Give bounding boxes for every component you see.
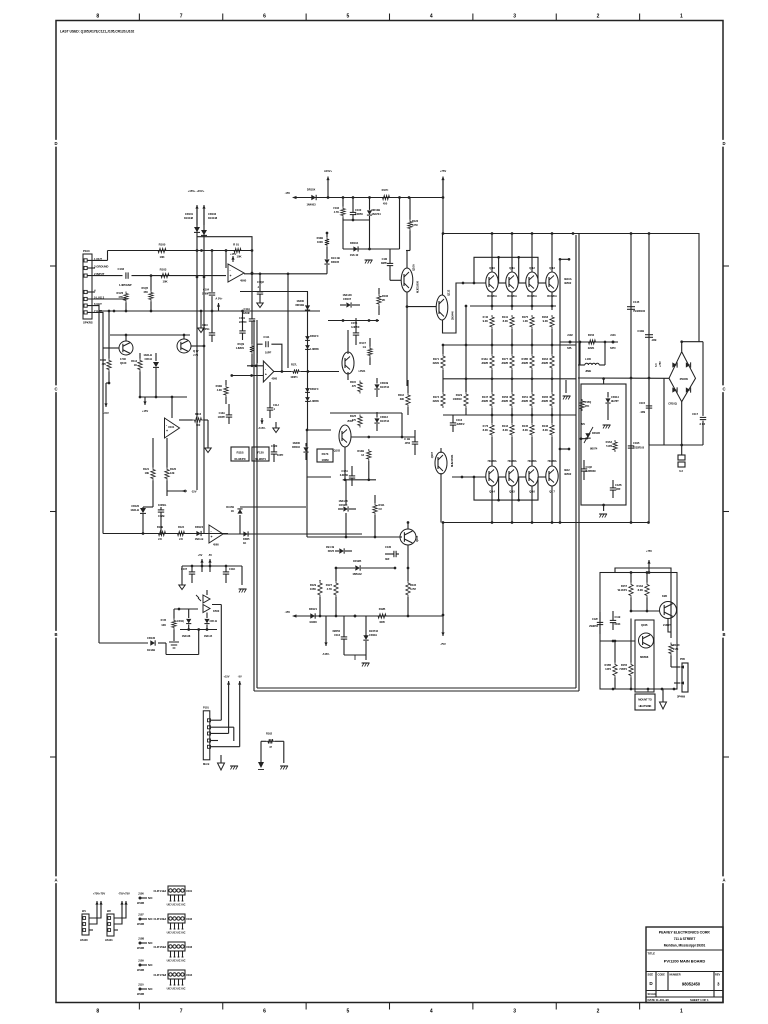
connector HS1 W1 <box>82 914 89 935</box>
svg-text:CLIP #5&6: CLIP #5&6 <box>154 945 167 949</box>
svg-text:P5B: P5B <box>680 657 685 661</box>
resistor R177 .33M5 <box>510 354 514 370</box>
wire P100 pin5 to R1V6 <box>88 298 127 300</box>
svg-text:1N4 4B: 1N4 4B <box>331 256 340 260</box>
P100 pin 1 OUT <box>84 259 87 262</box>
svg-text:Q 12: Q 12 <box>529 266 535 270</box>
svg-text:P100: P100 <box>83 249 90 253</box>
ground P101 triangle <box>220 755 222 763</box>
svg-text:Q 13: Q 13 <box>549 266 555 270</box>
svg-text:W10B: W10B <box>137 968 144 972</box>
svg-text:1N41-B: 1N41-B <box>204 635 213 638</box>
connector HS2 W2 <box>107 914 114 936</box>
plug J102 SPL <box>569 341 572 344</box>
svg-text:MV: MV <box>581 422 585 426</box>
diode CR115 <box>186 619 191 623</box>
svg-text:1: 1 <box>680 14 683 20</box>
wire top feedback bus y=250 <box>108 250 253 252</box>
svg-text:C: C <box>55 386 58 391</box>
resistor R15B <box>613 663 617 678</box>
svg-text:SPKRS: SPKRS <box>83 321 93 325</box>
svg-text:CR10Q: CR10Q <box>668 402 677 406</box>
resistor R123 <box>408 220 412 231</box>
svg-text:1: 1 <box>680 1009 683 1015</box>
svg-text:HS101: HS101 <box>105 938 113 942</box>
resistor R100 <box>156 248 168 252</box>
svg-text:J101: J101 <box>610 333 616 337</box>
resistor R128 <box>376 614 388 618</box>
svg-text:2S9R50: 2S9R50 <box>589 624 598 628</box>
svg-text:R125: R125 <box>350 414 357 418</box>
svg-text:1K: 1K <box>231 509 234 513</box>
diode CR121 <box>310 613 315 618</box>
svg-text:DR25: DR25 <box>243 537 250 541</box>
svg-text:.R50: .R50 <box>405 441 411 445</box>
svg-text:N/C: N/C <box>148 987 153 991</box>
svg-text:J106: J106 <box>138 892 144 896</box>
svg-text:C116: C116 <box>456 418 463 422</box>
svg-text:C10B: C10B <box>637 329 644 333</box>
resistor R1V6 47E <box>124 292 128 303</box>
capacitor C130 <box>393 551 395 557</box>
svg-text:1N4148: 1N4148 <box>338 499 348 503</box>
svg-text:R12B: R12B <box>379 607 386 611</box>
wire P100 pin7 <box>88 312 104 533</box>
resistor R101 <box>232 248 243 252</box>
diode CR111 <box>153 362 159 367</box>
svg-text:2.3R50M: 2.3R50M <box>586 469 596 473</box>
capacitor C117 <box>700 416 706 418</box>
svg-text:R16D: R16D <box>673 643 680 647</box>
svg-text:3.3R50: 3.3R50 <box>340 473 349 477</box>
wire CR130 row <box>99 642 148 644</box>
wire diff pair collectors <box>110 334 190 336</box>
transistor Q117 <box>546 466 558 486</box>
resistor R157 <box>629 583 633 598</box>
svg-text:2: 2 <box>597 14 600 20</box>
resistor R105 <box>149 291 153 302</box>
connector P100 <box>83 254 92 319</box>
wire y=220 joiner <box>343 219 370 221</box>
svg-text:22R50: 22R50 <box>239 320 247 324</box>
svg-text:2200F: 2200F <box>243 311 251 315</box>
svg-text:C120: C120 <box>271 444 278 448</box>
wire collector bus y=320 <box>328 320 379 322</box>
svg-text:6: 6 <box>263 1009 266 1015</box>
svg-text:.22RF2: .22RF2 <box>456 422 465 426</box>
svg-text:2.2K: 2.2K <box>673 647 678 651</box>
svg-text:21D8T: 21D8T <box>663 623 671 627</box>
wire upper base row <box>473 282 476 285</box>
svg-text:S 0: S 0 <box>654 363 658 367</box>
svg-text:R1Q5: R1Q5 <box>141 286 148 290</box>
ground R162 right <box>281 766 283 770</box>
wire ladder left rail <box>465 306 467 392</box>
svg-text:CR101: CR101 <box>185 212 194 216</box>
svg-text:F102: F102 <box>333 206 339 210</box>
svg-text:U102: U102 <box>186 917 193 921</box>
+15V arrow above U100A <box>232 256 234 262</box>
svg-text:640K: 640K <box>615 622 621 626</box>
P100 pin 6 GET <box>84 304 87 307</box>
wire P100 pin3 <box>88 267 96 269</box>
protection outer wire box <box>600 573 677 690</box>
svg-text:CR130: CR130 <box>147 636 156 640</box>
wire +75V arrow top <box>442 177 444 198</box>
svg-text:R11B: R11B <box>237 450 244 454</box>
svg-text:R123: R123 <box>412 219 419 223</box>
svg-text:1N4148: 1N4148 <box>182 635 191 638</box>
svg-text:CLIP #1&2: CLIP #1&2 <box>154 889 167 893</box>
capacitor C11B mid <box>412 441 418 443</box>
svg-text:100R1C: 100R1C <box>453 397 462 401</box>
wire bias rail x=560 <box>559 259 561 522</box>
arrow -15V bus left <box>292 614 297 617</box>
svg-text:+75V+75V: +75V+75V <box>93 892 105 896</box>
svg-text:6R9W8: 6R9W8 <box>640 655 649 659</box>
diode DR104 <box>353 246 357 251</box>
wire emitter bus y=397 <box>140 396 187 398</box>
svg-text:3: 3 <box>513 14 516 20</box>
resistor R155 <box>629 663 633 678</box>
svg-text:Q100: Q100 <box>120 361 127 365</box>
capacitor C12B <box>158 509 164 511</box>
svg-text:2K: 2K <box>382 298 385 302</box>
resistor R116 <box>193 418 204 422</box>
svg-text:W10B: W10B <box>137 946 144 950</box>
svg-text:1N14B: 1N14B <box>147 648 155 652</box>
plug J101 SPO <box>612 341 615 344</box>
svg-text:SIZE: SIZE <box>648 973 654 977</box>
resistor R141 9.2K <box>510 315 514 329</box>
capacitor C105 <box>239 330 245 332</box>
svg-text:Q 07: Q 07 <box>193 349 199 353</box>
svg-text:CR107: CR107 <box>343 297 352 301</box>
svg-text:1.3RRK: 1.3RRK <box>310 399 319 403</box>
resistor R160 8.2K <box>645 583 649 598</box>
svg-text:C130: C130 <box>385 545 392 549</box>
svg-text:7310BA: 7310BA <box>507 459 516 463</box>
shield box right edge <box>578 233 580 691</box>
svg-text:Q105: Q105 <box>415 535 419 542</box>
arrow -15V mid <box>167 490 187 492</box>
svg-text:+15V: +15V <box>230 252 236 256</box>
resistor R124 2.2K <box>176 531 187 535</box>
svg-text:8.2K: 8.2K <box>503 428 508 432</box>
svg-text:DR10B: DR10B <box>295 303 304 307</box>
svg-text:4: 4 <box>430 14 433 20</box>
svg-text:C111: C111 <box>263 335 269 339</box>
P100 pin 2 INPUT <box>84 274 87 277</box>
resistor R10B 4.3K <box>224 385 228 397</box>
svg-text:C: C <box>723 386 726 391</box>
resistor R161 2.2K <box>669 643 673 656</box>
svg-text:.1BF: .1BF <box>615 487 621 491</box>
wire Q104 emitter chain <box>344 447 346 480</box>
svg-text:R163: R163 <box>542 315 549 319</box>
svg-text:Q103: Q103 <box>334 449 341 453</box>
wire U102 inputs <box>247 365 263 367</box>
arrow A15V- mid <box>261 418 263 424</box>
wire -75V drop <box>442 523 444 631</box>
resistor R 76 8.2K <box>490 423 494 437</box>
svg-text:7: 7 <box>180 14 183 20</box>
svg-text:49502: 49502 <box>564 281 572 285</box>
svg-text:N/C: N/C <box>148 941 153 945</box>
svg-text:1BB142: 1BB142 <box>352 572 362 576</box>
capacitor C101 <box>387 262 393 264</box>
resistor R15B .33M5 <box>530 354 534 370</box>
wire U101B output <box>223 533 362 535</box>
svg-text:1N4148: 1N4148 <box>342 293 352 297</box>
ground /77 VI box bottom <box>602 504 605 507</box>
svg-text:R10B: R10B <box>216 384 223 388</box>
wire Q106 base <box>390 279 401 281</box>
svg-text:C12B: C12B <box>615 483 622 487</box>
diode CR12H <box>343 506 347 511</box>
ground P101 slashed <box>231 766 233 770</box>
svg-text:10060L: 10060L <box>158 503 167 507</box>
transistor Q120 <box>660 602 677 619</box>
diode CR103 <box>203 209 205 534</box>
wire P101 pin1 riser <box>220 648 222 720</box>
transistor Q114 <box>486 466 498 486</box>
title block <box>646 927 723 1003</box>
capacitor C107 <box>189 571 195 573</box>
diode CR101 <box>196 209 198 490</box>
wire bias rail <box>182 565 242 567</box>
transistor Q108 predriver <box>436 295 448 320</box>
resistor R151 .33M5 <box>530 392 534 408</box>
wire bias to CR130 <box>198 630 200 655</box>
svg-text:CR120: CR120 <box>131 504 139 508</box>
svg-text:P101: P101 <box>203 706 209 710</box>
svg-text:Q10A: Q10A <box>412 264 416 271</box>
svg-text:SPO: SPO <box>610 346 616 350</box>
svg-text:8: 8 <box>96 1009 99 1015</box>
svg-text:R157: R157 <box>621 584 628 588</box>
bridge rectifier CR100 <box>669 352 696 402</box>
svg-text:W2: W2 <box>107 909 111 913</box>
svg-text:U104: U104 <box>186 973 193 977</box>
capacitor C10B <box>645 334 653 336</box>
arrow -15V below R130 <box>105 383 107 407</box>
svg-text:390: 390 <box>400 397 405 401</box>
svg-text:DR10B: DR10B <box>372 208 381 212</box>
svg-text:39PF: 39PF <box>381 261 388 265</box>
svg-text:CLIP #7&8: CLIP #7&8 <box>154 973 167 977</box>
svg-text:R113: R113 <box>131 359 137 363</box>
diode DR17B <box>239 515 241 534</box>
svg-text:3: 3 <box>513 1009 516 1015</box>
svg-text:R116: R116 <box>195 412 202 416</box>
zener DR11C lower pair <box>305 388 310 392</box>
wire bus y=415 <box>443 414 576 416</box>
op-amp U101B 4560 <box>209 525 223 543</box>
svg-text:2504W: 2504W <box>680 377 689 381</box>
svg-text:.33M5: .33M5 <box>521 361 529 365</box>
ground R135 chassis <box>169 641 179 643</box>
transistor Q100 <box>119 341 133 355</box>
resistor R156 .33M5 <box>510 392 514 408</box>
svg-text:2N3440: 2N3440 <box>451 311 455 320</box>
ground C11K <box>241 566 243 585</box>
svg-text:A15V-: A15V- <box>258 426 265 430</box>
svg-text:9B074: 9B074 <box>590 447 598 451</box>
capacitor C103 series <box>125 272 127 278</box>
resistor R145 8.2K <box>530 423 534 437</box>
svg-text:105K: 105K <box>310 587 316 591</box>
svg-text:Q10B: Q10B <box>641 623 648 627</box>
label MOUNT TO HEATSINK <box>635 694 655 710</box>
wire lower input bus y=311 <box>99 310 320 312</box>
arrows +75V -75V left <box>96 901 98 905</box>
svg-text:-15V: -15V <box>103 411 109 415</box>
resistor R11B 2.2K <box>157 531 168 535</box>
svg-text:4.3K: 4.3K <box>217 388 222 392</box>
svg-text:2: 2 <box>597 1009 600 1015</box>
resistor R111 <box>373 503 377 515</box>
svg-text:J110: J110 <box>138 983 144 987</box>
svg-text:PEAVEY ELECTRONICS CORP.: PEAVEY ELECTRONICS CORP. <box>659 931 711 935</box>
wire bridge bottom <box>681 402 683 445</box>
svg-text:22M1: 22M1 <box>433 361 440 365</box>
wires HS1 to arrows <box>89 905 101 918</box>
svg-text:1.9: 1.9 <box>362 345 366 349</box>
svg-text:2.K: 2.K <box>179 537 183 541</box>
svg-text:9H78T: 9H78T <box>611 399 619 403</box>
svg-text:DR1Z1: DR1Z1 <box>309 607 318 611</box>
svg-text:4005: 4005 <box>379 620 385 624</box>
resistor R130 <box>107 359 111 372</box>
svg-text:SPL: SPL <box>567 346 572 350</box>
svg-text:A: A <box>723 877 726 882</box>
svg-text:-75V+75V: -75V+75V <box>118 892 130 896</box>
boxed resistor R173 <box>317 449 333 462</box>
svg-text:+75V: +75V <box>440 169 447 173</box>
svg-text:R147: R147 <box>482 395 489 399</box>
zone ticks bottom <box>138 1003 140 1010</box>
resistor R174 22M <box>441 392 445 408</box>
resistor R115 470 <box>358 381 362 394</box>
svg-text:+75V: +75V <box>646 549 652 553</box>
capacitor C11J <box>267 407 273 409</box>
svg-text:C 1B: C 1B <box>404 437 410 441</box>
svg-text:10PF: 10PF <box>265 351 272 355</box>
svg-text:100P1: 100P1 <box>290 375 298 379</box>
transistor Q103 upper <box>342 352 354 374</box>
svg-text:22M1: 22M1 <box>588 346 595 350</box>
svg-text:C10I: C10I <box>382 257 388 261</box>
arrow A15V+ rail top <box>327 177 329 198</box>
svg-text:B: B <box>723 632 726 637</box>
diode CR107 <box>346 302 350 307</box>
svg-text:R124: R124 <box>178 525 185 529</box>
svg-text:U/C U/C U/C U/C: U/C U/C U/C U/C <box>167 931 186 935</box>
svg-text:R175: R175 <box>522 315 529 319</box>
wire lower base bus <box>474 477 538 500</box>
transistor Q107 driver lower <box>435 452 447 474</box>
svg-text:J109: J109 <box>138 959 144 963</box>
svg-text:3912: 3912 <box>564 468 570 472</box>
arrow A15V- below <box>325 616 327 646</box>
svg-text:C#: C# <box>379 507 383 511</box>
shield box left edge <box>253 320 255 691</box>
svg-text:1N4734: 1N4734 <box>372 212 382 216</box>
wire base Q108 <box>407 306 436 308</box>
svg-text:R144: R144 <box>502 424 509 428</box>
svg-text:R177: R177 <box>502 357 509 361</box>
svg-text:C145: C145 <box>633 300 640 304</box>
svg-text:C11J: C11J <box>273 403 279 407</box>
svg-text:47E: 47E <box>118 295 123 299</box>
arrows -75V +75V right <box>121 901 123 905</box>
svg-text:D417B: D417B <box>226 505 234 509</box>
zone letters right <box>721 140 726 147</box>
wire feedback rail x=252 <box>197 237 252 319</box>
ground /77 lower <box>362 663 364 667</box>
wire input bus y=275.6 <box>132 275 227 277</box>
svg-text:R106: R106 <box>382 294 389 298</box>
resistor F102 <box>341 207 345 218</box>
wire Q120 emitter <box>668 619 671 633</box>
wire top corner to bridge <box>698 233 700 342</box>
svg-text:.33M5: .33M5 <box>501 361 509 365</box>
svg-text:13K: 13K <box>161 623 166 627</box>
svg-text:8: 8 <box>96 14 99 20</box>
svg-text:PV/1200 MAIN BOARD: PV/1200 MAIN BOARD <box>664 959 706 964</box>
svg-text:.1R9: .1R9 <box>651 338 657 342</box>
svg-text:R15Q: R15Q <box>585 400 592 404</box>
svg-text:W1: W1 <box>82 909 86 913</box>
svg-text:711 A STREET: 711 A STREET <box>674 937 696 941</box>
inductor L100 <box>585 363 599 365</box>
wire P100 pin2 input line <box>88 275 123 277</box>
wire bridge AC drop <box>663 378 665 445</box>
down triangle below protect <box>660 702 667 709</box>
svg-text:N/C: N/C <box>148 896 153 900</box>
trimmer DR11B <box>585 433 590 438</box>
svg-text:R15B: R15B <box>521 357 528 361</box>
svg-text:5 W5: 5 W5 <box>606 444 613 448</box>
svg-text:L100: L100 <box>585 357 591 361</box>
svg-text:U/C U/C U/C U/C: U/C U/C U/C U/C <box>167 987 186 991</box>
boxed resistor R11B 61.9KPX <box>231 447 249 461</box>
svg-text:REV: REV <box>715 973 720 977</box>
svg-text:100PF: 100PF <box>218 415 226 419</box>
ground mid <box>198 328 204 332</box>
svg-text:DF25: DF25 <box>328 549 335 553</box>
diode DR105 <box>324 259 329 263</box>
diode CR112 <box>374 418 379 422</box>
svg-text:1N400: 1N400 <box>309 620 317 624</box>
svg-text:10PF: 10PF <box>277 453 284 457</box>
svg-text:W.1KP1: W.1KP1 <box>618 588 628 592</box>
svg-text:R 76: R 76 <box>483 424 489 428</box>
svg-text:C11B: C11B <box>633 441 640 445</box>
wire CR110 loop <box>307 430 331 477</box>
svg-text:47K: 47K <box>585 404 590 408</box>
resistor R1C7 <box>368 347 372 358</box>
wire opamp plus drop <box>225 251 227 269</box>
svg-text:Q112: Q112 <box>447 289 451 296</box>
svg-text:MOUNT TO: MOUNT TO <box>638 698 652 702</box>
wire bus y=616 <box>296 615 443 617</box>
resistor R103 <box>159 273 171 277</box>
svg-text:1N400: 1N400 <box>296 299 304 303</box>
optocoupler U102 <box>168 914 185 923</box>
wire long bus y=533 <box>103 533 228 535</box>
